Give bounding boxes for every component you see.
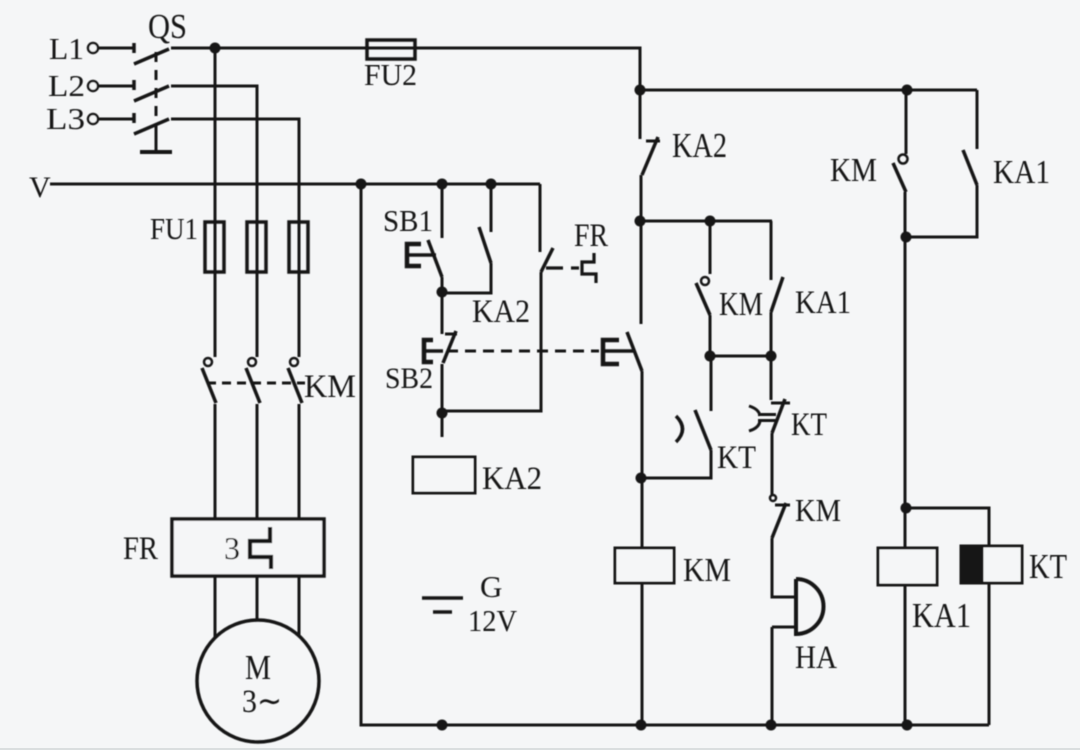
svg-text:KT: KT bbox=[717, 440, 756, 476]
svg-text:KT: KT bbox=[791, 407, 827, 443]
svg-text:FU2: FU2 bbox=[364, 57, 417, 92]
svg-text:SB1: SB1 bbox=[383, 203, 433, 238]
svg-text:FR: FR bbox=[574, 218, 608, 254]
svg-text:M: M bbox=[245, 648, 271, 687]
svg-text:L1: L1 bbox=[49, 31, 84, 66]
svg-text:SB2: SB2 bbox=[385, 362, 433, 395]
svg-text:KA2: KA2 bbox=[672, 126, 727, 165]
svg-text:KA2: KA2 bbox=[482, 461, 542, 497]
svg-text:KA1: KA1 bbox=[795, 285, 851, 321]
svg-text:V: V bbox=[29, 171, 51, 204]
svg-text:KM: KM bbox=[683, 552, 731, 589]
svg-text:L3: L3 bbox=[46, 101, 85, 136]
svg-text:HA: HA bbox=[795, 640, 837, 676]
svg-text:12V: 12V bbox=[468, 603, 518, 638]
svg-text:KA1: KA1 bbox=[993, 154, 1050, 191]
svg-text:QS: QS bbox=[148, 7, 187, 46]
svg-text:G: G bbox=[480, 569, 502, 604]
svg-text:3: 3 bbox=[224, 530, 240, 566]
svg-text:3∼: 3∼ bbox=[242, 684, 282, 720]
svg-text:KA1: KA1 bbox=[912, 596, 971, 635]
svg-text:KM: KM bbox=[795, 492, 841, 528]
svg-text:KT: KT bbox=[1029, 547, 1067, 586]
svg-text:KM: KM bbox=[719, 286, 763, 323]
svg-text:FU1: FU1 bbox=[150, 211, 198, 246]
svg-text:KA2: KA2 bbox=[472, 294, 530, 330]
svg-text:KM: KM bbox=[304, 369, 356, 405]
svg-text:KM: KM bbox=[830, 152, 877, 189]
svg-text:FR: FR bbox=[123, 531, 158, 567]
svg-text:L2: L2 bbox=[48, 68, 85, 103]
